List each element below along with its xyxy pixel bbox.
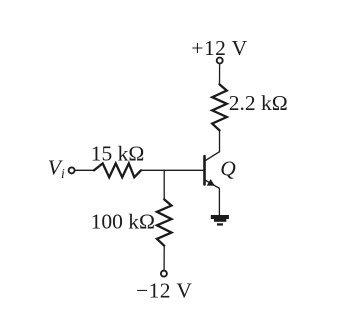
- wire Vi to resistor R1: [76, 169, 94, 171]
- wire R1 to base node: [141, 169, 203, 171]
- transistor Q emitter arrow: [207, 179, 215, 186]
- ground: [211, 215, 229, 226]
- resistor R1 15 kOhm: [94, 163, 141, 177]
- resistor R2 100 kOhm: [157, 199, 172, 245]
- wire emitter to ground: [218, 188, 220, 215]
- svg-text:15 kΩ: 15 kΩ: [91, 142, 145, 166]
- svg-text:100 kΩ: 100 kΩ: [91, 209, 155, 233]
- terminal Vi: [69, 167, 75, 173]
- wire +12V terminal to R3: [219, 65, 221, 85]
- terminal -12 V: [161, 271, 167, 277]
- terminal +12 V: [217, 58, 223, 64]
- svg-text:−12 V: −12 V: [136, 279, 192, 303]
- resistor R3 2.2 kOhm: [212, 84, 227, 130]
- svg-text:2.2 kΩ: 2.2 kΩ: [229, 91, 288, 115]
- wire R2 to -12V terminal: [163, 246, 165, 270]
- svg-text:+12 V: +12 V: [191, 36, 247, 60]
- svg-text:Q: Q: [220, 156, 236, 180]
- transistor Q collector lead: [206, 152, 220, 161]
- wire base node down to R2: [163, 170, 165, 199]
- transistor Q emitter lead: [206, 181, 220, 189]
- transistor Q base bar: [203, 156, 206, 184]
- wire R3 to collector: [219, 130, 221, 151]
- svg-text:Vi: Vi: [48, 156, 65, 181]
